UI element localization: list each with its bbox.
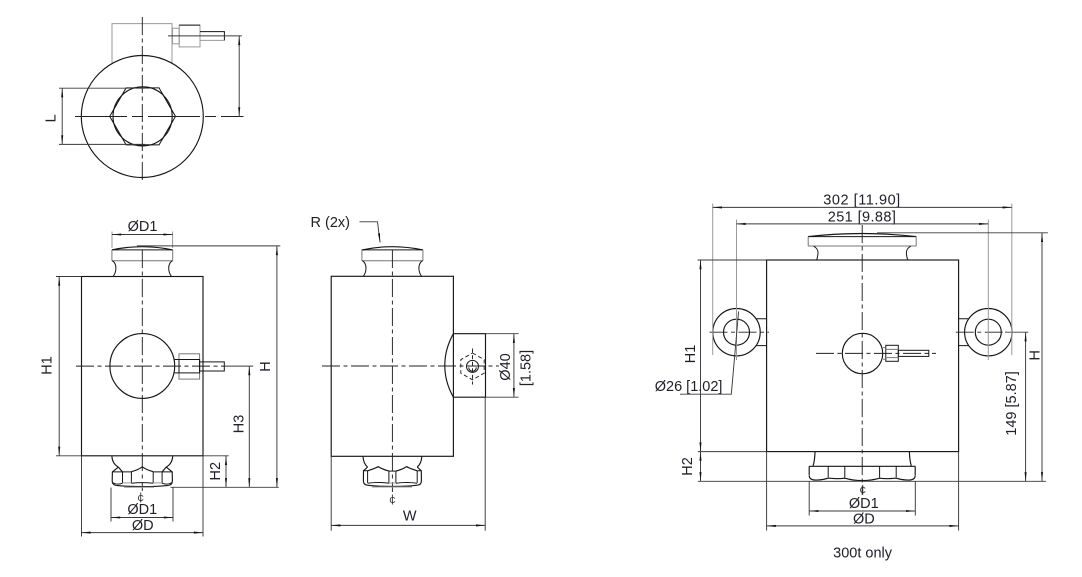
svg-text:ØD: ØD: [132, 518, 154, 534]
svg-text:H3: H3: [231, 415, 247, 434]
svg-text:L: L: [44, 114, 60, 122]
svg-text:149 [5.87]: 149 [5.87]: [1004, 371, 1020, 436]
svg-text:H2: H2: [208, 462, 224, 481]
svg-text:R (2x): R (2x): [311, 215, 350, 231]
svg-text:Ø26 [1.02]: Ø26 [1.02]: [655, 379, 723, 395]
svg-text:C: C: [389, 495, 395, 505]
svg-text:300t only: 300t only: [833, 546, 893, 562]
svg-text:H: H: [1027, 350, 1043, 360]
svg-text:ØD: ØD: [853, 512, 875, 528]
svg-text:ØD1: ØD1: [127, 502, 157, 518]
svg-text:W: W: [403, 509, 417, 525]
svg-text:H: H: [258, 361, 274, 371]
svg-text:[1.58]: [1.58]: [519, 350, 535, 386]
svg-text:C: C: [860, 485, 866, 495]
svg-text:ØD1: ØD1: [849, 496, 879, 512]
svg-text:ØD1: ØD1: [128, 219, 158, 235]
svg-text:Ø40: Ø40: [498, 353, 514, 380]
svg-text:H2: H2: [680, 457, 696, 476]
svg-text:302 [11.90]: 302 [11.90]: [823, 193, 901, 209]
svg-text:H1: H1: [683, 345, 699, 364]
svg-text:H1: H1: [40, 356, 56, 375]
svg-text:251 [9.88]: 251 [9.88]: [828, 210, 897, 226]
